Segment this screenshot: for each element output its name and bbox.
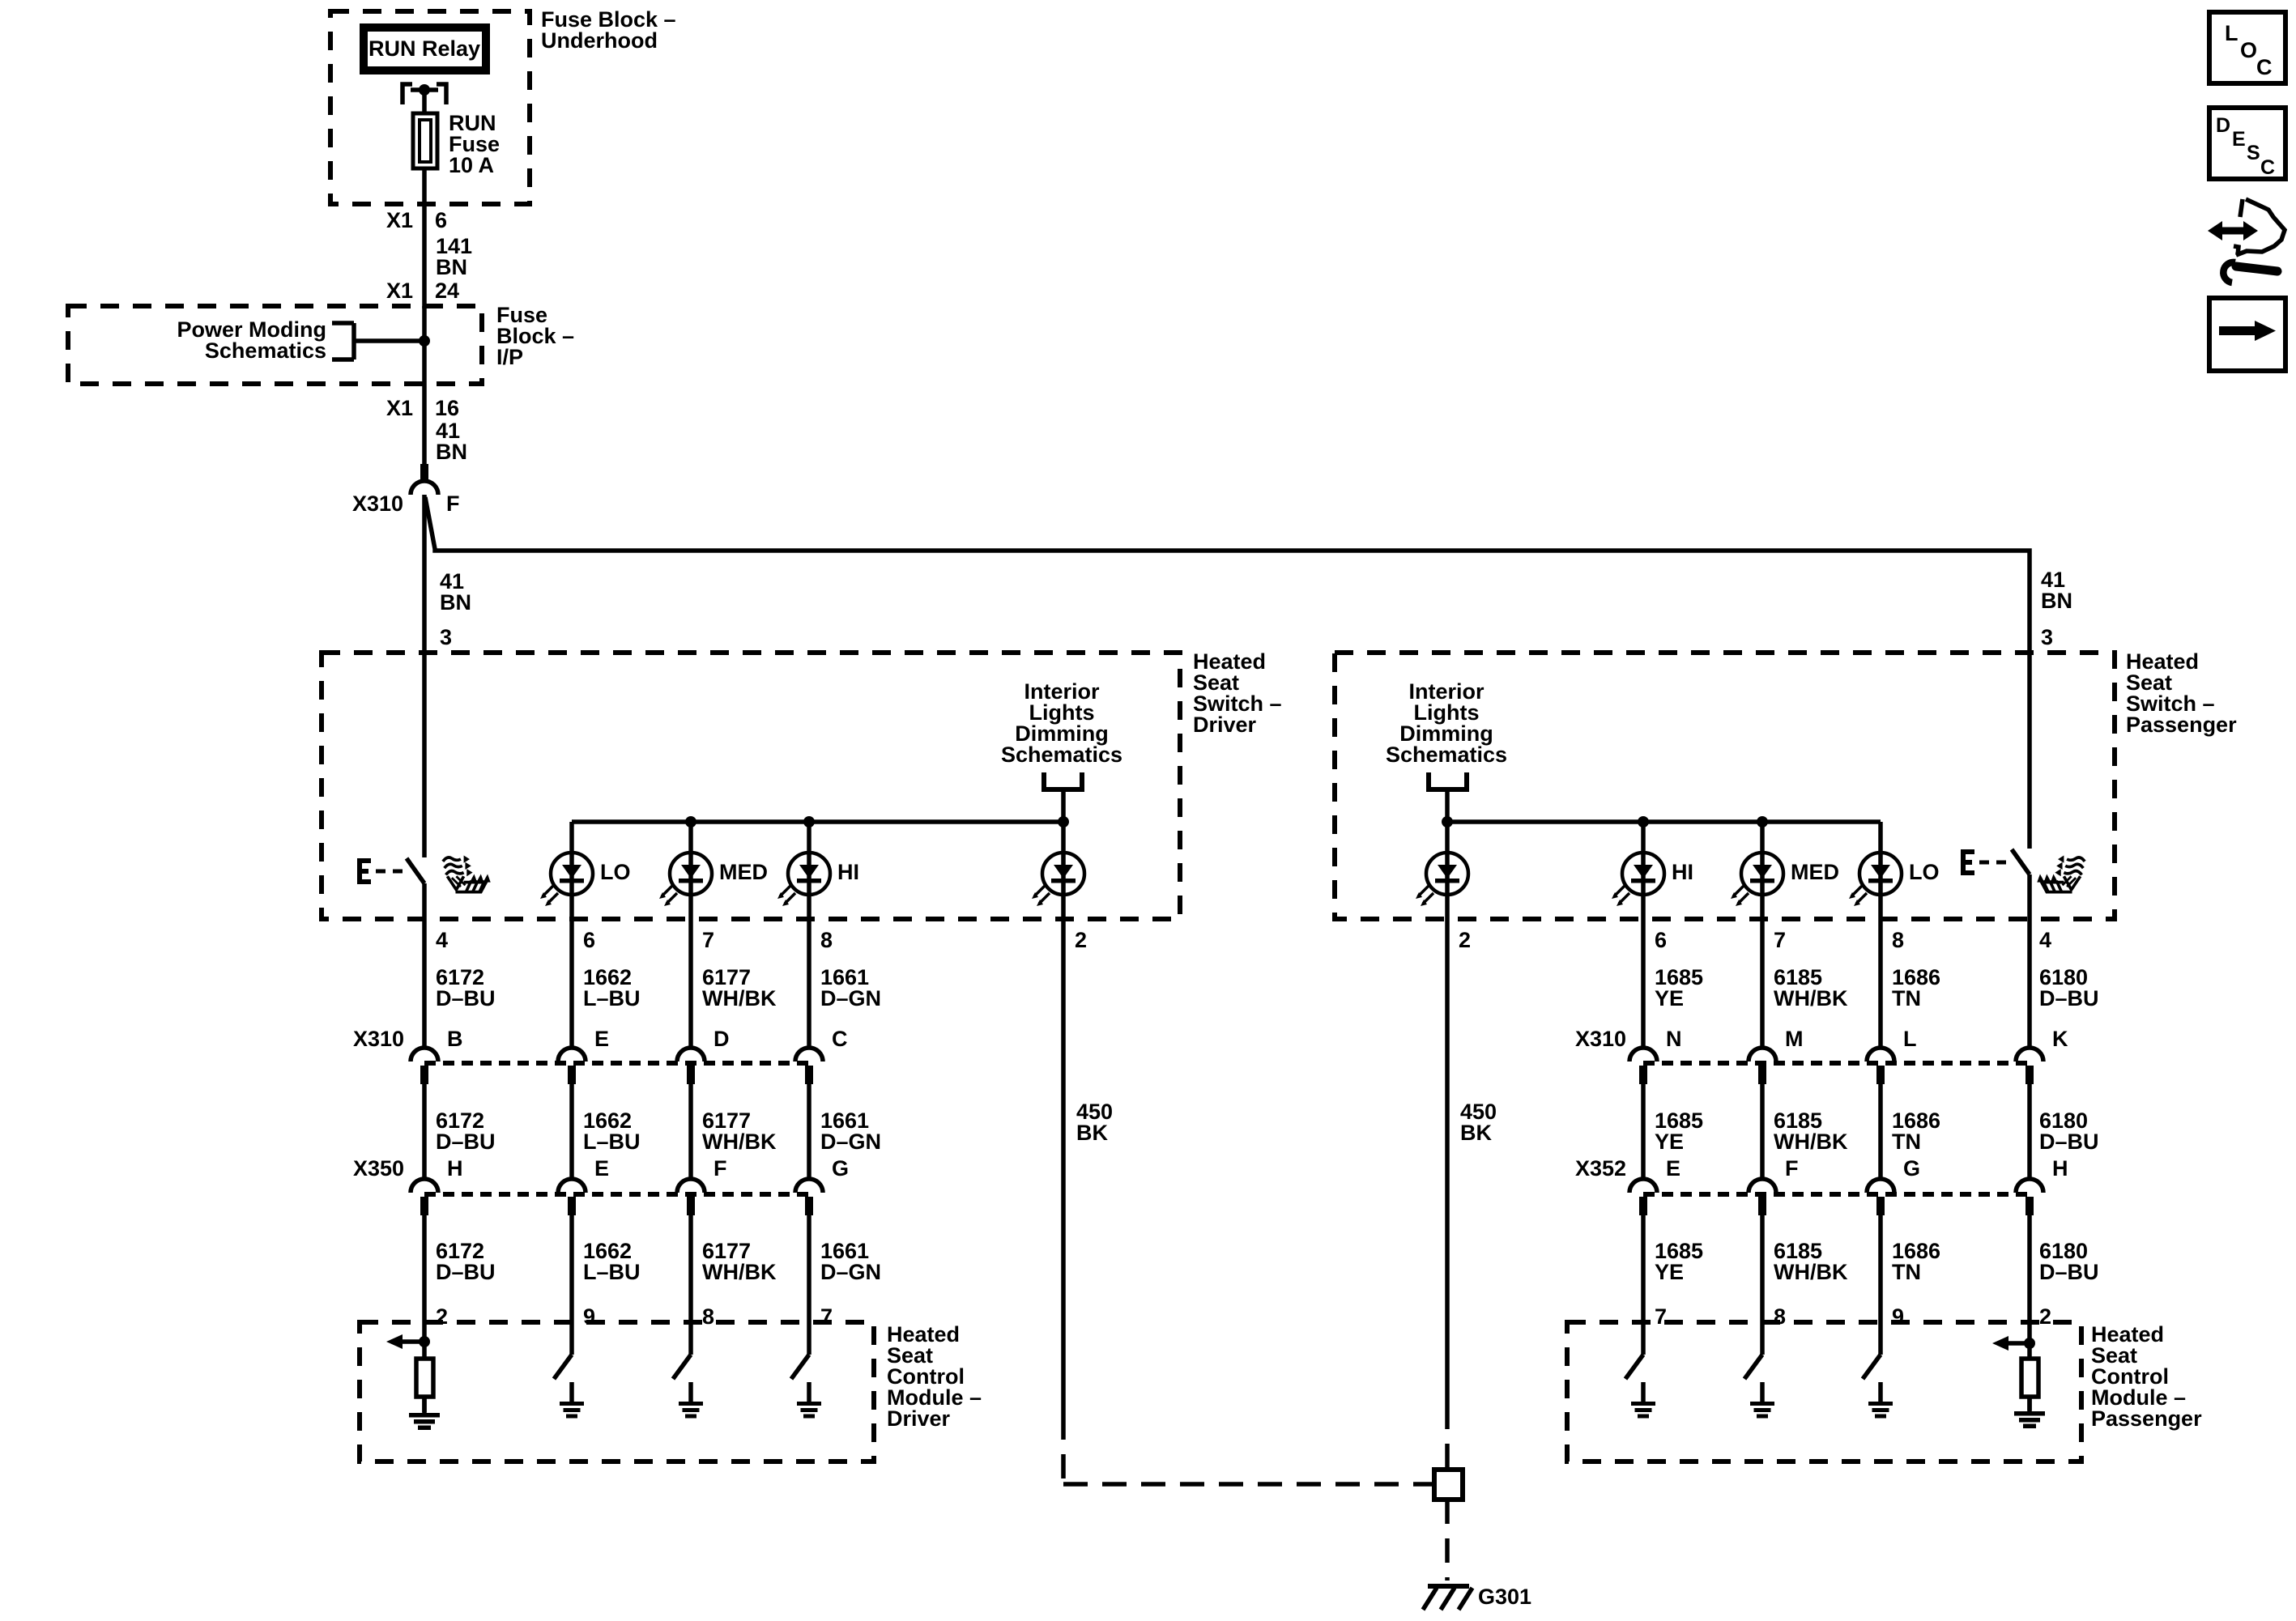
svg-text:L–BU: L–BU (583, 986, 641, 1010)
svg-text:TN: TN (1892, 1260, 1921, 1284)
wire LED LO drop passenger (1878, 822, 1883, 919)
LED HI passenger (1612, 853, 1664, 906)
wire LED MED drop passenger (1760, 822, 1765, 919)
heated seat switch passenger box (1335, 653, 2115, 919)
wire relay to fuse (422, 90, 427, 113)
connector X310 F arc (411, 481, 438, 495)
svg-text:B: B (447, 1027, 463, 1051)
wire 6185 WH/BK segment2 passenger (1760, 1084, 1765, 1179)
wire 6180 D–BU segment2 passenger (2027, 1084, 2032, 1179)
svg-text:YE: YE (1655, 986, 1684, 1010)
svg-text:X310: X310 (353, 1027, 404, 1051)
svg-text:L–BU: L–BU (583, 1130, 641, 1154)
wire 6177 WH/BK segment2 driver (688, 1084, 693, 1179)
svg-text:BK: BK (1076, 1121, 1108, 1145)
wire LED LO drop (569, 822, 574, 919)
wire 6172 D–BU segment2 driver (422, 1084, 427, 1179)
svg-text:D–GN: D–GN (820, 1130, 881, 1154)
svg-text:D: D (2216, 114, 2230, 137)
svg-text:BN: BN (436, 255, 467, 279)
arrow sense passenger (1992, 1336, 2008, 1351)
svg-text:2: 2 (2039, 1304, 2051, 1329)
heated seat control module passenger box (1567, 1322, 2081, 1461)
svg-text:7: 7 (1655, 1304, 1667, 1329)
switch blade driver (407, 858, 424, 883)
svg-text:C: C (832, 1027, 848, 1051)
connector X350 E driver (558, 1179, 586, 1193)
svg-text:9: 9 (583, 1304, 595, 1329)
svg-text:Passenger: Passenger (2126, 713, 2237, 737)
svg-text:8: 8 (1774, 1304, 1786, 1329)
heated seat switch driver box (322, 653, 1180, 919)
wire 1662 L–BU segment1 driver (569, 919, 574, 1048)
svg-text:G: G (1903, 1156, 1920, 1181)
svg-text:7: 7 (702, 928, 714, 952)
power moding bracket (332, 323, 354, 360)
LED dimming indicator passenger (1416, 853, 1468, 906)
svg-text:BN: BN (440, 590, 471, 615)
svg-text:L–BU: L–BU (583, 1260, 641, 1284)
bus wire driver LEDs (572, 819, 1063, 824)
svg-text:6: 6 (435, 208, 447, 232)
connector dashed line X310 driver (424, 1061, 809, 1066)
wire 450 BK passenger (1445, 919, 1450, 1405)
svg-text:D–BU: D–BU (436, 1260, 496, 1284)
svg-text:Schematics: Schematics (1001, 742, 1122, 767)
icon DESC box (2209, 108, 2285, 179)
svg-text:WH/BK: WH/BK (702, 1260, 777, 1284)
svg-text:2: 2 (436, 1304, 448, 1329)
connector X350 F driver (677, 1179, 705, 1193)
svg-text:7: 7 (1774, 928, 1786, 952)
svg-text:YE: YE (1655, 1130, 1684, 1154)
wire pin2 into module driver (422, 1322, 427, 1359)
svg-text:O: O (2240, 38, 2257, 62)
svg-text:D–BU: D–BU (436, 986, 496, 1010)
svg-text:X1: X1 (386, 279, 413, 303)
icon car with arrow and wrench (2208, 199, 2285, 283)
wire 6177 WH/BK segment1 driver (688, 919, 693, 1048)
wire through I/P block (422, 306, 427, 464)
switch to ground pin7 passenger (1641, 1322, 1646, 1355)
svg-text:C: C (2260, 156, 2275, 179)
wire 1662 L–BU segment3 driver (569, 1215, 574, 1322)
svg-text:WH/BK: WH/BK (702, 986, 777, 1010)
svg-text:TN: TN (1892, 986, 1921, 1010)
svg-text:Passenger: Passenger (2091, 1406, 2202, 1431)
connector X310 N passenger (1629, 1048, 1657, 1062)
wire 6180 D–BU segment3 passenger (2027, 1215, 2032, 1322)
wire 1685 YE segment1 passenger (1641, 919, 1646, 1048)
wire switch to pin 4 passenger (2027, 874, 2032, 919)
wire 1686 TN segment3 passenger (1878, 1215, 1883, 1322)
wire resistor to ground passenger (2027, 1397, 2032, 1410)
svg-text:M: M (1785, 1027, 1804, 1051)
svg-text:8: 8 (702, 1304, 714, 1329)
svg-text:7: 7 (820, 1304, 833, 1329)
svg-text:Driver: Driver (1193, 713, 1257, 737)
svg-text:G301: G301 (1478, 1585, 1531, 1609)
connector X310 C driver (795, 1048, 823, 1062)
svg-text:H: H (2052, 1156, 2068, 1181)
junction dots driver bus (685, 816, 696, 828)
wire 1662 L–BU segment2 driver (569, 1084, 574, 1179)
connector X310 K passenger (2016, 1048, 2043, 1062)
svg-text:D–BU: D–BU (436, 1130, 496, 1154)
resistor temperature sensor passenger (2021, 1359, 2038, 1397)
svg-text:2: 2 (1459, 928, 1471, 952)
svg-text:6: 6 (1655, 928, 1667, 952)
wire 6177 WH/BK segment3 driver (688, 1215, 693, 1322)
wire 450 BK passenger dashed drop (1445, 1405, 1450, 1470)
svg-text:X350: X350 (353, 1156, 404, 1181)
svg-text:Driver: Driver (887, 1406, 951, 1431)
switch to ground pin9 passenger (1878, 1322, 1883, 1355)
LED dimming indicator driver (1032, 853, 1084, 906)
wire branch to passenger feed (425, 497, 2030, 849)
switch to ground pin8 driver (688, 1322, 693, 1355)
svg-text:2: 2 (1075, 928, 1087, 952)
svg-text:9: 9 (1892, 1304, 1904, 1329)
svg-text:HI: HI (837, 860, 859, 884)
LED HI indicator (777, 853, 830, 906)
connector X310 E driver (558, 1048, 586, 1062)
wire 1686 TN segment1 passenger (1878, 919, 1883, 1048)
svg-text:BN: BN (436, 440, 467, 464)
svg-text:F: F (714, 1156, 727, 1181)
connector dashed line X310 passenger (1643, 1061, 2030, 1066)
wire LED HI drop (807, 822, 811, 919)
wire resistor to ground driver (422, 1397, 427, 1412)
connector dashed line X350 driver (424, 1192, 809, 1197)
fuse RUN Fuse 10 A (413, 113, 437, 168)
wire 450 BK driver (1061, 919, 1066, 1415)
svg-text:MED: MED (719, 860, 768, 884)
wire 6172 D–BU segment1 driver (422, 919, 427, 1048)
svg-text:F: F (1785, 1156, 1799, 1181)
svg-text:LO: LO (600, 860, 631, 884)
svg-text:E: E (594, 1027, 609, 1051)
svg-text:X310: X310 (1575, 1027, 1626, 1051)
svg-text:16: 16 (435, 396, 459, 420)
connector X310 L passenger (1867, 1048, 1894, 1062)
wire 1685 YE segment2 passenger (1641, 1084, 1646, 1179)
svg-text:X1: X1 (386, 396, 413, 420)
switch to ground pin9 driver (569, 1322, 574, 1355)
splice S301 square (1434, 1470, 1463, 1500)
connector X350 H driver (411, 1179, 438, 1193)
seat heater icon driver (443, 856, 491, 892)
svg-text:D–GN: D–GN (820, 1260, 881, 1284)
svg-text:X352: X352 (1575, 1156, 1626, 1181)
wire bracket to bus driver (1061, 792, 1066, 822)
relay RUN Relay (364, 28, 486, 70)
LED LO passenger (1849, 853, 1902, 906)
connector X352 H passenger (2016, 1179, 2043, 1193)
svg-text:E: E (594, 1156, 609, 1181)
svg-text:10 A: 10 A (449, 153, 494, 177)
svg-text:6: 6 (583, 928, 595, 952)
svg-text:BN: BN (2041, 589, 2072, 613)
wire 1661 D–GN segment3 driver (807, 1215, 811, 1322)
svg-text:F: F (446, 491, 460, 516)
wire 1661 D–GN segment2 driver (807, 1084, 811, 1179)
svg-text:HI: HI (1672, 860, 1693, 884)
svg-text:E: E (2232, 128, 2246, 151)
svg-text:4: 4 (2039, 928, 2051, 952)
bracket interior lights passenger (1429, 772, 1467, 789)
LED LO indicator (540, 853, 593, 906)
svg-text:S: S (2247, 142, 2260, 164)
wire pin2 into module passenger (2027, 1322, 2032, 1359)
resistor temperature sensor driver (416, 1359, 433, 1397)
wire bracket to bus passenger (1445, 792, 1450, 822)
connector X310 terminal F tick (420, 464, 428, 483)
connector X310 M passenger (1749, 1048, 1776, 1062)
svg-text:Underhood: Underhood (541, 28, 658, 53)
svg-text:E: E (1666, 1156, 1680, 1181)
svg-text:8: 8 (1892, 928, 1904, 952)
icon LOC box (2209, 12, 2285, 83)
LED MED indicator (659, 853, 712, 906)
switch blade passenger (2012, 849, 2030, 874)
wire LED dim drop passenger (1445, 822, 1450, 919)
bus wire passenger LEDs (1447, 819, 1881, 824)
wire LED dim drop (1061, 822, 1066, 919)
wire splice to ground dashed (1445, 1500, 1450, 1581)
wire LED MED drop (688, 822, 693, 919)
wire switch to pin 4 (422, 883, 427, 919)
wire LED HI drop passenger (1641, 822, 1646, 919)
wire 6180 D–BU segment1 passenger (2027, 919, 2032, 1048)
fuse block I/P box (68, 306, 482, 384)
wire 1685 YE segment3 passenger (1641, 1215, 1646, 1322)
ground driver module (409, 1397, 440, 1430)
svg-text:WH/BK: WH/BK (1774, 1130, 1848, 1154)
icon arrow box (2209, 298, 2285, 371)
switch detent symbol passenger (1963, 852, 1974, 873)
svg-text:C: C (2256, 55, 2273, 79)
connector X350 G driver (795, 1179, 823, 1193)
svg-text:WH/BK: WH/BK (1774, 986, 1848, 1010)
svg-text:D–GN: D–GN (820, 986, 881, 1010)
seat heater icon passenger (2037, 856, 2085, 892)
svg-text:G: G (832, 1156, 849, 1181)
svg-text:Schematics: Schematics (205, 338, 326, 363)
svg-text:3: 3 (440, 625, 452, 649)
svg-text:24: 24 (435, 279, 459, 303)
arrow sense driver (386, 1334, 403, 1349)
svg-text:D: D (714, 1027, 730, 1051)
switch to ground pin8 passenger (1760, 1322, 1765, 1355)
connector X352 F passenger (1749, 1179, 1776, 1193)
connector dashed line X352 passenger (1643, 1192, 2030, 1197)
wire 1686 TN segment2 passenger (1878, 1084, 1883, 1179)
svg-text:Schematics: Schematics (1386, 742, 1507, 767)
connector X352 G passenger (1867, 1179, 1894, 1193)
wire 6185 WH/BK segment1 passenger (1760, 919, 1765, 1048)
fuse block underhood box (330, 11, 530, 204)
svg-text:L: L (1903, 1027, 1917, 1051)
svg-text:8: 8 (820, 928, 833, 952)
node junction at X1-24 feed (419, 335, 430, 347)
svg-text:RUN Relay: RUN Relay (368, 36, 480, 61)
wire 6172 D–BU segment3 driver (422, 1215, 427, 1322)
heated seat control module driver box (360, 1322, 874, 1461)
connector X310 B driver (411, 1048, 438, 1062)
svg-text:WH/BK: WH/BK (1774, 1260, 1848, 1284)
wire power moding to node (354, 338, 424, 343)
svg-text:H: H (447, 1156, 463, 1181)
wire 450 BK driver dashed run to splice (1063, 1482, 1432, 1487)
svg-text:YE: YE (1655, 1260, 1684, 1284)
connector X310 D driver (677, 1048, 705, 1062)
svg-text:D–BU: D–BU (2039, 1260, 2099, 1284)
svg-text:3: 3 (2041, 625, 2053, 649)
switch to ground pin7 driver (807, 1322, 811, 1355)
svg-text:D–BU: D–BU (2039, 986, 2099, 1010)
LED MED passenger (1731, 853, 1783, 906)
svg-text:I/P: I/P (496, 345, 523, 369)
svg-text:4: 4 (436, 928, 448, 952)
bracket interior lights driver (1044, 772, 1082, 789)
svg-text:L: L (2225, 21, 2238, 45)
svg-text:LO: LO (1909, 860, 1940, 884)
wire 450 BK driver dashed drop (1061, 1415, 1066, 1484)
ground G301 (1423, 1584, 1472, 1610)
svg-text:TN: TN (1892, 1130, 1921, 1154)
svg-text:K: K (2052, 1027, 2068, 1051)
svg-text:D–BU: D–BU (2039, 1130, 2099, 1154)
svg-text:BK: BK (1460, 1121, 1492, 1145)
switch detent symbol driver (360, 861, 371, 882)
ground passenger module (2014, 1395, 2045, 1428)
wire X310 F to driver switch (422, 495, 427, 857)
svg-text:X1: X1 (386, 208, 413, 232)
relay clip terminals (403, 84, 446, 104)
svg-text:WH/BK: WH/BK (702, 1130, 777, 1154)
wire 6185 WH/BK segment3 passenger (1760, 1215, 1765, 1322)
wire fuse to X1-6 (422, 170, 427, 308)
junction dots passenger bus (1442, 816, 1453, 828)
wire 1661 D–GN segment1 driver (807, 919, 811, 1048)
svg-text:X310: X310 (352, 491, 403, 516)
connector X352 E passenger (1629, 1179, 1657, 1193)
svg-text:MED: MED (1791, 860, 1839, 884)
svg-text:N: N (1666, 1027, 1682, 1051)
